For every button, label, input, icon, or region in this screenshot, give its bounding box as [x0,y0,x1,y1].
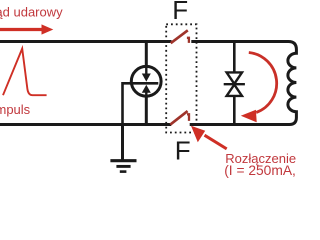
svg-text:F: F [172,0,188,25]
svg-text:impuls: impuls [0,102,31,117]
svg-text:Prąd udarowy: Prąd udarowy [0,5,63,20]
svg-text:(I = 250mA,: (I = 250mA, [224,163,296,178]
svg-text:F: F [175,136,191,166]
